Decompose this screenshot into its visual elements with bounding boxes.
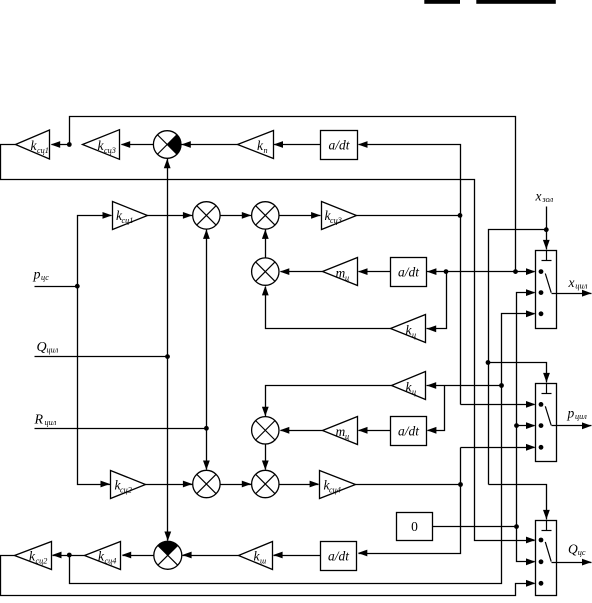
junction dot Q input on bus x=167.5 [165, 354, 170, 359]
junction dot on bus x=516.5 at SW2 contact2 wire [514, 423, 519, 428]
arrow into M4 [183, 481, 193, 488]
arrow into M1 bottom [203, 229, 210, 239]
arrow into M3 from right [280, 268, 290, 275]
arrow into M3 bottom [262, 286, 269, 296]
block d/dt 1 [321, 131, 358, 160]
arrow into S1 from right [181, 141, 191, 148]
svg-text:ш: ш [260, 556, 266, 565]
arrow into SW3 top [543, 510, 550, 520]
arrow into d/dt4 [358, 550, 368, 557]
wire k_sc1R output to M1 [148, 215, 193, 217]
arrow into S1 bottom [164, 159, 171, 169]
arrow into S2 top [164, 532, 171, 542]
svg-text:ц: ц [412, 387, 416, 396]
wire k_p output to S1 [182, 144, 238, 146]
arrow into M4 top (from bus x=206.4) [206, 429, 208, 470]
multiplier M2 [252, 202, 279, 229]
svg-text:x: x [568, 275, 575, 290]
arrow into M1 [183, 212, 193, 219]
wire vertical bus x=167.5 from S1 to S2 [167, 159, 169, 541]
wire k_sc1 output to left edge then down and right (long line y=179.5) [1, 145, 535, 541]
arrow into k_sc2L [52, 552, 62, 559]
wire k_c2 input line from dot x=501.5 [427, 385, 502, 387]
gain k_sc2 (right-pointing) [111, 471, 146, 499]
arrow into SW3 contact 2 [526, 558, 536, 565]
wire k_sc2R output to M4 [146, 484, 193, 486]
junction dot R on bus x=206.4 [204, 426, 209, 431]
svg-text:цил: цил [575, 281, 588, 291]
junction dot at x=446 on y=271.6 [444, 269, 449, 274]
gain k_sc1 (top-left, left-pointing) [16, 130, 50, 159]
arrow into k_c2 [427, 382, 437, 389]
wire bus488 branch to SW2 top [489, 363, 547, 383]
gain k_p (left-pointing) [238, 131, 274, 159]
wire k_sc4L output to node B to k_sc2L [53, 555, 85, 557]
svg-text:ц: ц [345, 432, 349, 441]
wire node A to k_sc1 input [52, 144, 70, 146]
wire d/dt2 output to m_c1 [359, 271, 391, 273]
svg-text:a/dt: a/dt [328, 549, 350, 564]
svg-text:сц2: сц2 [36, 556, 48, 565]
block d/dt 3 [391, 417, 427, 446]
wire M6 output down into M5 [265, 445, 267, 470]
arrow into M6 from right [280, 427, 290, 434]
svg-text:п: п [264, 146, 268, 155]
wire bus x=501.5 from SW1 contact3 down to bottom line [70, 314, 535, 584]
arrow into k_sc3R [311, 212, 321, 219]
arrow into SW1 contact 3 [526, 310, 536, 317]
junction dot k_sc4R output [458, 482, 463, 487]
arrow into M2 bottom [262, 229, 269, 239]
svg-text:a/dt: a/dt [398, 424, 420, 439]
wire y=271.6 feeding d/dt2, k_c1 and SW1 contact 1 [427, 271, 535, 273]
svg-text:p: p [33, 268, 41, 283]
wire d/dt3 output to m_c2 [359, 430, 391, 432]
svg-text:цил: цил [47, 346, 59, 355]
junction dot x_zol branch [544, 227, 549, 232]
arrow into k_sc1R [103, 212, 113, 219]
wire bus x=460.5 from SW2 contact3 down to d/dt4 input [461, 447, 535, 449]
gain k_sc1 (right-pointing) [113, 202, 148, 230]
svg-text:ц: ц [345, 273, 349, 282]
junction dot on bus x=501.5 at y=385.5 [499, 383, 504, 388]
arrow into M2 [242, 212, 252, 219]
wire m_c2 output to M6 [281, 430, 323, 432]
svg-text:0: 0 [411, 519, 418, 534]
svg-text:цил: цил [575, 412, 587, 421]
svg-text:сц4: сц4 [329, 485, 341, 494]
switch SW3 (output Q_shchs) [536, 521, 557, 596]
svg-text:сц2: сц2 [120, 485, 132, 494]
wire M2 to k_sc3R [280, 215, 321, 217]
svg-text:сц1: сц1 [37, 146, 49, 155]
wire M1 to M2 [221, 215, 252, 217]
gain m_c upper (left-pointing) [323, 258, 358, 286]
junction dot at x=515.5 on y=271.6 [513, 269, 518, 274]
arrow into m_c2 [358, 427, 368, 434]
multiplier M4 [193, 470, 220, 497]
arrow into k_sc1 [51, 141, 61, 148]
gain k_sc2 (bottom, left-pointing) [15, 542, 52, 570]
wire bus x=460.5 vertical segment [359, 448, 461, 554]
wire bus x=460 from k_sc3R output dot up to d/dt1 input [359, 145, 461, 405]
wire M1 fed from bus x=206.4 [206, 230, 208, 429]
wire S2 output to k_sc4L [123, 555, 154, 557]
svg-text:p: p [567, 406, 575, 421]
arrow into S2 from right [182, 552, 192, 559]
wire bus x=516.5 zero-signal to SW1/SW2/SW3 contact 2 [517, 293, 535, 562]
arrow into switch SW2 contact 1 (from bus x=460) [461, 404, 535, 406]
svg-text:сц4: сц4 [105, 556, 117, 565]
wire 0-block output to bus x=516.5 [433, 526, 517, 528]
arrow into SW2 contact 2 [526, 422, 536, 429]
input wire R_cil [35, 428, 207, 430]
gain k_sh (left-pointing) [239, 542, 273, 570]
multiplier M1 [193, 202, 220, 229]
arrow into SW1 contact 2 [526, 289, 536, 296]
multiplier M6 [252, 417, 279, 444]
svg-text:сц3: сц3 [104, 146, 116, 155]
wire M4 to M5 [221, 484, 252, 486]
input wire p_shchs [35, 286, 78, 288]
wire k_sc3R output to bus x=460 [357, 215, 461, 217]
summing junction S2 (top sector filled) [158, 541, 178, 555]
arrow into switch SW3 contact 1 [526, 537, 536, 544]
arrow into k_sc2R [101, 481, 111, 488]
arrow into k_p [274, 141, 284, 148]
junction dot p on bus x=77.3 [75, 284, 80, 289]
wire M3 output up into M2 [265, 230, 267, 258]
gain m_c lower (left-pointing) [323, 417, 358, 445]
switch SW1 (output x_cil) [536, 251, 557, 329]
block d/dt 4 [321, 542, 357, 571]
wire k_sc4R output to dot on bus x=460.5 [356, 484, 461, 486]
wire x_zol down into SW1 top [546, 207, 548, 250]
arrow into k_sc4L [122, 552, 132, 559]
wire d/dt4 output to k_sh [274, 555, 321, 557]
arrow into M5 top [262, 461, 269, 471]
gain k_sc3 (top, left-pointing) [83, 130, 120, 160]
svg-text:цс: цс [578, 548, 586, 557]
svg-text:ц: ц [412, 330, 416, 339]
svg-text:a/dt: a/dt [328, 138, 350, 153]
top cropped text bar 1 [424, 0, 460, 4]
gain k_sc3 (right-pointing) [322, 202, 357, 230]
wire k_sh output to S2 [183, 555, 239, 557]
node A junction dot [67, 142, 72, 147]
junction dot zero-block output on bus x=516.5 [514, 524, 519, 529]
top cropped text bar 2 [476, 0, 556, 4]
junction dot on bus x=488 at y=362.5 [486, 360, 491, 365]
svg-text:R: R [34, 413, 44, 428]
gain k_sc4 (bottom, left-pointing) [85, 542, 121, 570]
input wire Q_cil [35, 356, 168, 358]
gain k_c upper (left-pointing) [391, 315, 426, 343]
svg-text:x: x [535, 189, 542, 204]
svg-text:цил: цил [45, 418, 57, 427]
wire T-branch x=444.8 down to d/dt3 input [428, 386, 445, 431]
node B junction dot [67, 553, 72, 558]
wire input bus x=77.5 (p input) with corners to k_sc1R and k_sc2R inputs [78, 216, 112, 485]
svg-text:m: m [336, 266, 346, 281]
arrow into d/dt3 [427, 427, 437, 434]
svg-text:зол: зол [541, 194, 553, 204]
wire x_zol branch left to bus x=488 [489, 230, 547, 485]
wire M5 to k_sc4R [280, 484, 319, 486]
svg-text:сц3: сц3 [330, 216, 342, 225]
arrow into d/dt2 [427, 268, 437, 275]
wire from dot x=446 down to k_c1 input [427, 272, 447, 329]
svg-text:Q: Q [37, 340, 47, 355]
svg-text:сц1: сц1 [122, 216, 134, 225]
wire k_c1 output left then up into M3 [266, 287, 391, 329]
block constant 0 [397, 513, 433, 541]
svg-text:Q: Q [568, 542, 578, 557]
switch SW2 (output p_cil) [536, 384, 557, 462]
wire k_sc2L output to left edge down and right to SW3 contact 3 [1, 556, 535, 596]
summing junction S1 (right sector filled) [167, 135, 181, 155]
wire to SW2 contact 2 [517, 425, 535, 427]
arrow into M5 [242, 481, 252, 488]
arrow into k_sc4R [310, 481, 320, 488]
wire k_c2 output left then down into M6 [266, 386, 392, 417]
arrow into k_sh [273, 552, 283, 559]
svg-text:a/dt: a/dt [398, 265, 420, 280]
wire m_c1 output to M3 [281, 271, 323, 273]
arrow into M6 top [262, 407, 269, 417]
wire S1 output to k_sc3 input [122, 144, 154, 146]
multiplier M3 [252, 258, 279, 285]
block d/dt 2 [391, 258, 427, 287]
arrow into SW1 top [543, 240, 550, 250]
arrow into SW3 contact 3 [526, 580, 536, 587]
arrow into k_c1 [427, 325, 437, 332]
arrow into SW1 contact 1 [526, 268, 536, 275]
arrow into SW2 contact 3 [526, 444, 536, 451]
gain k_sc4 (right-pointing) [320, 471, 356, 499]
wire bus488 bottom corner to SW3 top [489, 485, 547, 520]
arrow into d/dt1 [358, 141, 368, 148]
junction dot k_sc3R output on bus x=460 [458, 213, 463, 218]
svg-text:m: m [336, 424, 346, 439]
gain k_c lower (left-pointing) [392, 372, 426, 400]
arrow into SW2 top [543, 373, 550, 383]
wire top feedback from node A up and right to x=515.5 then down [70, 117, 516, 272]
multiplier M5 [252, 470, 279, 497]
wire d/dt1 output to k_p input [274, 144, 321, 146]
svg-text:цс: цс [41, 273, 49, 282]
arrow into m_c1 [358, 268, 368, 275]
arrow into k_sc3 [121, 141, 131, 148]
